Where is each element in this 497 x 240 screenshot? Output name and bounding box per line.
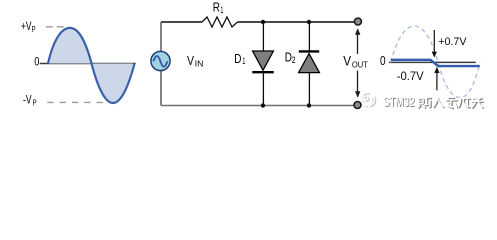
svg-text:V: V — [187, 54, 195, 68]
svg-text:0: 0 — [380, 54, 386, 68]
input waveform -Vp dashed level line — [47, 101, 113, 103]
svg-text:-0.7V: -0.7V — [397, 69, 425, 83]
input sine wave fill — [48, 28, 135, 103]
wire diode D1 branch upper — [262, 22, 264, 51]
diode D2 triangle — [299, 54, 320, 73]
svg-text:R: R — [213, 1, 220, 15]
wire top rail right segment — [238, 21, 355, 23]
wire left branch lower — [160, 70, 162, 105]
svg-text:1: 1 — [242, 56, 245, 66]
diode D2 cathode bar — [299, 50, 319, 52]
junction dot top D2 — [307, 20, 311, 24]
input sine wave stroke — [48, 28, 135, 103]
wire diode D2 branch upper — [308, 22, 310, 51]
junction dot bottom D1 — [261, 103, 265, 107]
svg-text:1: 1 — [220, 5, 223, 15]
AC source VIN circle — [151, 51, 170, 70]
junction dot bottom D2 — [307, 103, 311, 107]
svg-text:2: 2 — [292, 55, 296, 65]
diode D1 cathode bar — [252, 71, 273, 73]
input waveform horizontal axis — [40, 63, 136, 65]
wire diode D2 branch lower — [308, 73, 310, 106]
svg-text:+V: +V — [21, 19, 32, 33]
output graph horizontal axis — [389, 61, 476, 63]
wire left branch upper — [160, 22, 162, 52]
watermark logo circle — [361, 93, 375, 107]
svg-text:P: P — [33, 98, 37, 108]
+0.7V annotation arrow (down) — [433, 30, 435, 52]
svg-text:V: V — [343, 53, 351, 68]
resistor R1 zigzag — [202, 17, 238, 27]
svg-text:OUT: OUT — [352, 60, 368, 70]
svg-text:D: D — [234, 52, 241, 66]
-0.7V annotation arrow (up) — [436, 73, 438, 91]
wire bottom rail — [161, 105, 354, 107]
output terminal bottom — [354, 102, 361, 109]
diode D1 triangle — [253, 51, 274, 70]
svg-text:IN: IN — [195, 59, 204, 69]
svg-text:0: 0 — [34, 54, 39, 68]
output dashed original sine — [391, 26, 480, 98]
junction dot top D1 — [261, 20, 265, 24]
AC source sine symbol — [153, 56, 167, 67]
svg-text:STM32: STM32 — [383, 95, 415, 109]
svg-text:-V: -V — [23, 93, 32, 107]
svg-text:+0.7V: +0.7V — [438, 36, 467, 48]
watermark CJK glyphs (simulated) — [417, 97, 484, 108]
wire top rail left segment — [161, 21, 202, 23]
input waveform +Vp dashed level line — [46, 26, 65, 28]
output terminal top — [354, 18, 361, 25]
output clipped waveform — [391, 60, 480, 66]
wire diode D1 branch lower — [262, 73, 264, 105]
VOUT arrow upper — [357, 34, 359, 54]
VOUT arrow lower — [357, 71, 359, 92]
svg-text:P: P — [32, 24, 36, 34]
